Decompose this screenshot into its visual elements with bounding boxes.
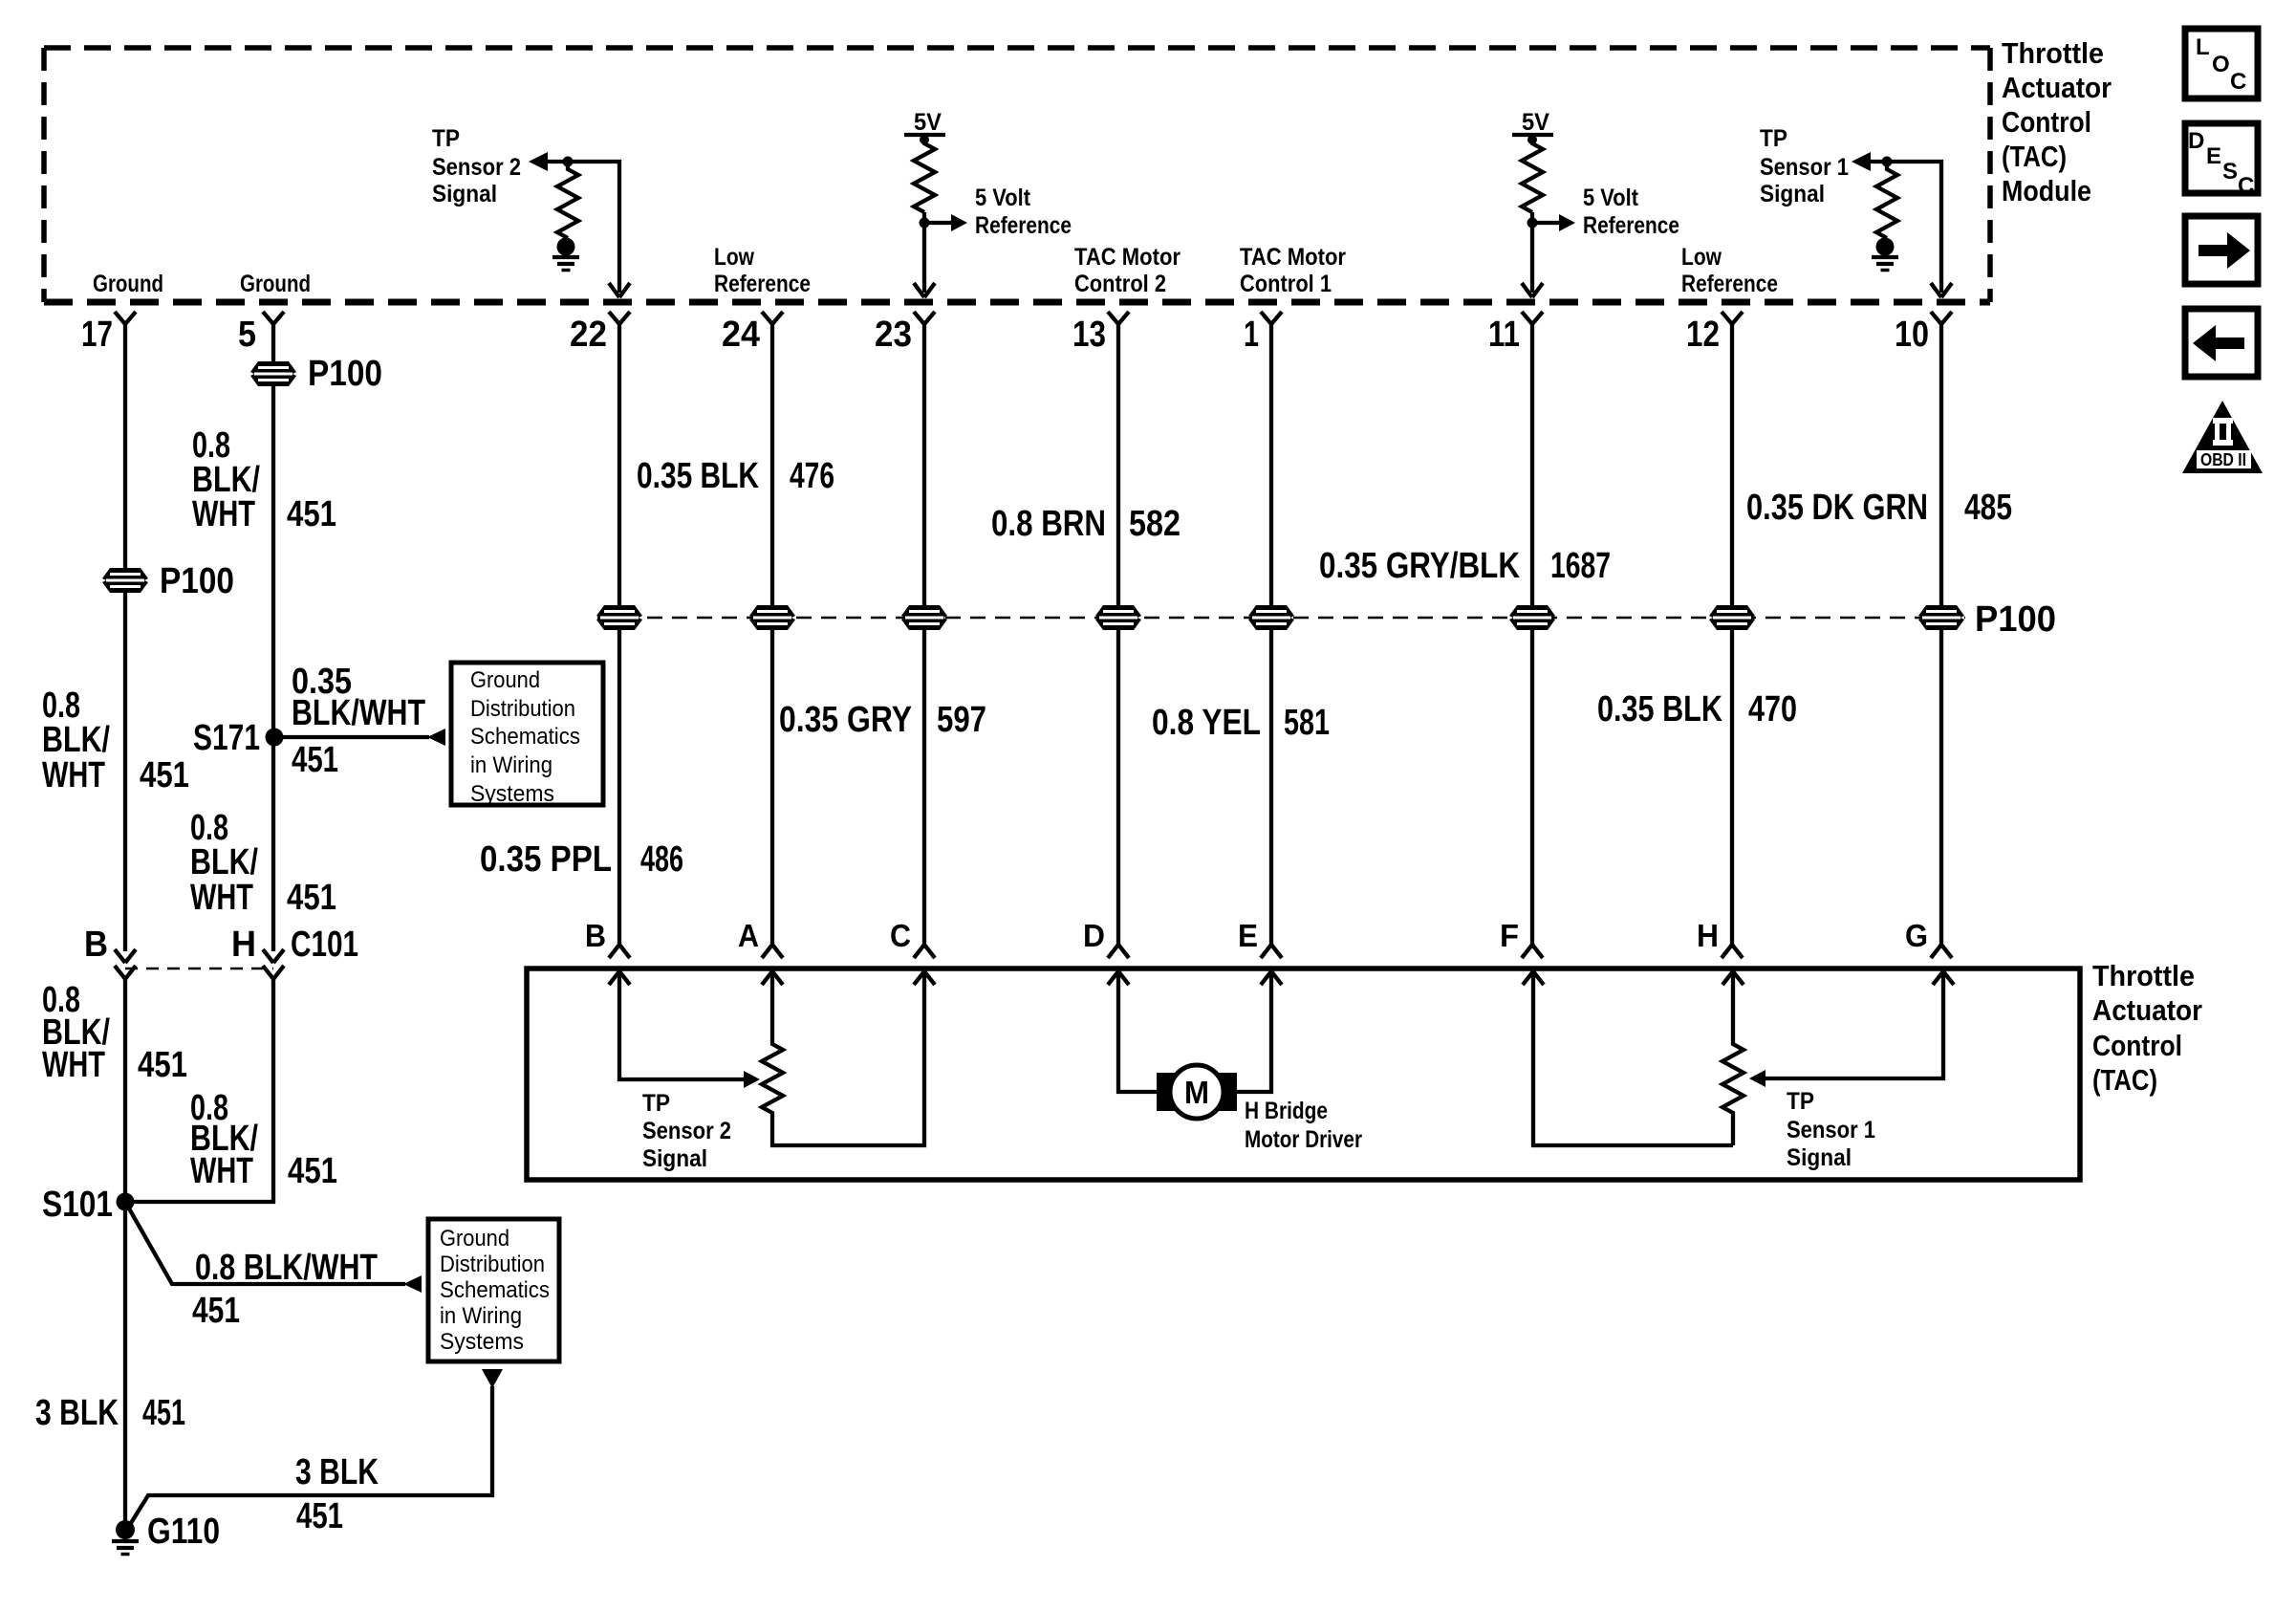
svg-text:WHT: WHT bbox=[190, 1151, 253, 1191]
svg-text:582: 582 bbox=[1129, 504, 1180, 544]
svg-text:Signal: Signal bbox=[642, 1145, 707, 1172]
svg-text:Control: Control bbox=[2092, 1029, 2182, 1062]
connector P100 at wire 23 bbox=[901, 605, 947, 630]
label: 5 Volt Reference (pin 11) bbox=[1583, 185, 1679, 239]
svg-text:WHT: WHT bbox=[42, 755, 105, 795]
svg-text:0.35 PPL: 0.35 PPL bbox=[480, 839, 612, 880]
resistor R-5V (pin 11) bbox=[1522, 140, 1543, 212]
svg-text:0.35 GRY: 0.35 GRY bbox=[779, 700, 912, 740]
svg-text:in Wiring: in Wiring bbox=[470, 752, 552, 778]
label: 3 BLK 451 (wire B lower) bbox=[35, 1393, 185, 1433]
svg-text:1: 1 bbox=[1244, 315, 1259, 355]
svg-text:Sensor 2: Sensor 2 bbox=[432, 154, 521, 181]
svg-text:M: M bbox=[1184, 1075, 1209, 1110]
svg-text:BLK/: BLK/ bbox=[42, 720, 110, 760]
wire 10 vertical bbox=[1939, 323, 1943, 945]
label: 0.35 BLK 470 (wire 12) bbox=[1597, 689, 1797, 729]
svg-text:E: E bbox=[2206, 143, 2221, 169]
wire 22 vertical bbox=[617, 323, 621, 945]
connector P100 at wire 12 bbox=[1709, 605, 1755, 630]
chevron arrow pin 23 internal bbox=[914, 283, 935, 297]
svg-text:O: O bbox=[2212, 52, 2230, 77]
label: Throttle Actuator Control (TAC) bbox=[2092, 959, 2202, 1097]
svg-text:5V: 5V bbox=[914, 109, 942, 136]
svg-text:581: 581 bbox=[1284, 703, 1330, 743]
svg-text:Throttle: Throttle bbox=[2092, 959, 2195, 992]
svg-text:Systems: Systems bbox=[470, 781, 554, 807]
label: TP Sensor 2 Signal (module internal) bbox=[432, 125, 521, 207]
svg-text:Control 2: Control 2 bbox=[1074, 271, 1166, 297]
svg-text:OBD II: OBD II bbox=[2200, 450, 2246, 469]
svg-text:Reference: Reference bbox=[1583, 212, 1679, 239]
label: TAC Motor Control 2 (pin 13) bbox=[1074, 244, 1180, 297]
svg-text:Reference: Reference bbox=[1681, 271, 1778, 297]
svg-text:Throttle: Throttle bbox=[2002, 36, 2104, 70]
svg-text:5 Volt: 5 Volt bbox=[975, 185, 1031, 211]
svg-text:H: H bbox=[1697, 918, 1719, 953]
svg-text:0.8 BLK/WHT: 0.8 BLK/WHT bbox=[195, 1248, 378, 1288]
svg-text:Sensor 1: Sensor 1 bbox=[1787, 1117, 1875, 1143]
ground (TP2 internal) bbox=[552, 238, 579, 271]
svg-text:451: 451 bbox=[140, 755, 189, 795]
arrow to 5 Volt Reference (pin 11) bbox=[1532, 221, 1559, 225]
label: 0.8 BLK/WHT 451 (wire 5 upper) bbox=[192, 425, 336, 534]
svg-text:Ground: Ground bbox=[440, 1226, 509, 1252]
label: 0.8 BLK/WHT 451 (wire B) bbox=[42, 980, 187, 1085]
svg-text:BLK/: BLK/ bbox=[190, 842, 258, 882]
wire: TP1 signal node to pin 10 bbox=[1868, 162, 1941, 293]
svg-text:L: L bbox=[2196, 34, 2210, 60]
label: 0.8 BLK/WHT 451 (wire H) bbox=[190, 1088, 337, 1191]
svg-text:C: C bbox=[890, 918, 911, 953]
svg-text:F: F bbox=[1500, 918, 1519, 953]
svg-text:0.35 BLK: 0.35 BLK bbox=[637, 456, 759, 496]
label: TAC Motor Control 1 (pin 1) bbox=[1240, 244, 1346, 297]
wire: TP2 signal node to pin 22 bbox=[545, 162, 619, 293]
svg-text:in Wiring: in Wiring bbox=[440, 1303, 522, 1329]
label: 0.8 BLK/WHT 451 (wire 5 lower) bbox=[190, 808, 336, 918]
node dot TP2 bbox=[563, 157, 574, 167]
svg-text:Ground: Ground bbox=[93, 271, 163, 297]
svg-text:11: 11 bbox=[1488, 315, 1520, 355]
svg-text:C: C bbox=[2230, 69, 2246, 95]
svg-text:C: C bbox=[2238, 173, 2254, 199]
svg-text:S101: S101 bbox=[42, 1185, 113, 1225]
wire box2 to G110 run bbox=[131, 1386, 492, 1523]
svg-text:Signal: Signal bbox=[432, 181, 497, 207]
svg-text:10: 10 bbox=[1895, 315, 1929, 355]
svg-text:24: 24 bbox=[722, 315, 760, 355]
svg-text:Reference: Reference bbox=[714, 271, 811, 297]
svg-text:Schematics: Schematics bbox=[440, 1277, 550, 1303]
label: TP Sensor 1 Signal (module internal) bbox=[1760, 125, 1849, 207]
wire 5V to pin 11 bbox=[1530, 212, 1534, 293]
label: TP Sensor 1 Signal (TAC internal) bbox=[1787, 1088, 1875, 1171]
svg-text:Systems: Systems bbox=[440, 1329, 524, 1355]
P100 inline connector dashed line bbox=[597, 617, 1965, 620]
icon: DESC box bbox=[2185, 123, 2258, 199]
svg-text:Schematics: Schematics bbox=[470, 724, 580, 750]
label: 0.35 BLK 476 (wire 24) bbox=[637, 456, 834, 496]
motor M (H bridge) bbox=[1157, 1065, 1237, 1119]
splice S101 node bbox=[117, 1193, 135, 1211]
svg-text:Reference: Reference bbox=[975, 212, 1072, 239]
svg-text:Ground: Ground bbox=[240, 271, 311, 297]
arrow to 5 Volt Reference (pin 23) bbox=[924, 221, 951, 225]
svg-text:451: 451 bbox=[287, 494, 336, 534]
svg-text:P100: P100 bbox=[160, 561, 234, 601]
label: Low Reference (pin 24) bbox=[714, 244, 811, 297]
svg-text:E: E bbox=[1238, 918, 1258, 953]
svg-text:Distribution: Distribution bbox=[470, 696, 575, 722]
connector C101: chevrons and dashed line bbox=[115, 949, 284, 979]
label: 0.8 YEL 581 (wire 1) bbox=[1152, 703, 1330, 743]
label: Low Reference (pin 12) bbox=[1681, 244, 1778, 297]
svg-text:Sensor 2: Sensor 2 bbox=[642, 1118, 731, 1144]
svg-text:H: H bbox=[231, 925, 256, 965]
wire 23 vertical bbox=[922, 323, 926, 945]
label: 0.8 BLK/WHT 451 (wire 17) bbox=[42, 686, 189, 795]
svg-text:1687: 1687 bbox=[1550, 546, 1611, 586]
svg-text:B: B bbox=[585, 918, 606, 953]
connector P100 at wire 1 bbox=[1248, 605, 1294, 630]
label: 0.35 GRY 597 (wire 23) bbox=[779, 700, 986, 740]
svg-text:A: A bbox=[738, 918, 759, 953]
svg-text:TAC Motor: TAC Motor bbox=[1074, 244, 1180, 271]
wire S171 to ground distribution box bbox=[274, 735, 429, 739]
svg-text:BLK/WHT: BLK/WHT bbox=[292, 693, 425, 733]
svg-text:451: 451 bbox=[296, 1496, 343, 1536]
svg-text:D: D bbox=[1083, 918, 1105, 953]
svg-text:3 BLK: 3 BLK bbox=[295, 1452, 379, 1492]
svg-text:486: 486 bbox=[640, 839, 683, 880]
connector P100 at wire 22 bbox=[596, 605, 642, 630]
svg-text:TP: TP bbox=[1787, 1088, 1814, 1115]
svg-text:C101: C101 bbox=[291, 925, 358, 965]
connector P100 at wire 17 bbox=[102, 568, 148, 593]
svg-text:TP: TP bbox=[642, 1090, 670, 1117]
svg-text:WHT: WHT bbox=[190, 878, 253, 918]
label: 5 Volt Reference (pin 23) bbox=[975, 185, 1072, 239]
icon: forward arrow box bbox=[2185, 216, 2258, 284]
internal chevron arrows at TAC box top bbox=[609, 971, 630, 985]
wire 12 vertical bbox=[1730, 323, 1734, 945]
svg-text:Control: Control bbox=[2002, 105, 2091, 139]
svg-text:Control 1: Control 1 bbox=[1240, 271, 1332, 297]
svg-text:(TAC): (TAC) bbox=[2092, 1063, 2157, 1097]
svg-text:Low: Low bbox=[1681, 244, 1722, 271]
svg-text:5V: 5V bbox=[1522, 109, 1549, 136]
svg-text:17: 17 bbox=[81, 315, 113, 355]
chevron arrow pin 11 internal bbox=[1522, 283, 1543, 297]
5V supply bar (pin 23) bbox=[904, 133, 945, 137]
wire S101 to ground distribution box (lower) bbox=[125, 1202, 405, 1284]
svg-text:470: 470 bbox=[1748, 689, 1797, 729]
svg-text:Actuator: Actuator bbox=[2002, 71, 2112, 104]
wire F internal to TP1 bottom bbox=[1533, 971, 1733, 1145]
svg-text:5 Volt: 5 Volt bbox=[1583, 185, 1639, 211]
svg-text:Sensor 1: Sensor 1 bbox=[1760, 154, 1849, 181]
svg-text:0.35 BLK: 0.35 BLK bbox=[1597, 689, 1722, 729]
wire D internal to motor bbox=[1118, 971, 1157, 1092]
svg-text:597: 597 bbox=[937, 700, 986, 740]
wire 1 vertical bbox=[1269, 323, 1273, 945]
svg-text:Signal: Signal bbox=[1787, 1144, 1852, 1171]
svg-text:TP: TP bbox=[432, 125, 460, 152]
svg-text:G110: G110 bbox=[147, 1512, 220, 1552]
svg-text:Low: Low bbox=[714, 244, 754, 271]
label: 0.35 PPL 486 (wire 22) bbox=[480, 839, 683, 880]
connector P100 at wire 5 bbox=[250, 361, 296, 386]
wire 17 vertical bbox=[123, 323, 127, 951]
splice S101... S171 node bbox=[266, 729, 284, 747]
arrow into box2 bbox=[403, 1275, 422, 1293]
connector P100 at wire 10 bbox=[1918, 605, 1964, 630]
svg-text:Ground: Ground bbox=[470, 667, 540, 693]
label: 0.8 BRN 582 (wire 13) bbox=[991, 504, 1180, 544]
svg-text:WHT: WHT bbox=[192, 494, 255, 534]
svg-text:22: 22 bbox=[570, 315, 607, 355]
TAC box pin forks (female connectors) bbox=[609, 945, 630, 958]
box: Ground Distribution Schematics in Wiring Systems (upper) bbox=[451, 663, 603, 807]
resistor R-TP1 (pull to ground) bbox=[1876, 162, 1897, 238]
svg-text:D: D bbox=[2188, 128, 2204, 154]
connector P100 at wire 13 bbox=[1095, 605, 1141, 630]
svg-text:451: 451 bbox=[287, 878, 336, 918]
label: 0.8 BLK/WHT 451 (S101 branch) bbox=[192, 1248, 378, 1331]
wire 5V to pin 23 bbox=[922, 212, 926, 293]
svg-text:451: 451 bbox=[192, 1291, 240, 1331]
node dot under 5V bar bbox=[920, 135, 929, 144]
connector P100 at wire 11 bbox=[1509, 605, 1555, 630]
arrow to TP Sensor 2 Signal bbox=[529, 152, 548, 171]
arrow to TP Sensor 1 Signal bbox=[1852, 152, 1871, 171]
svg-text:0.8 YEL: 0.8 YEL bbox=[1152, 703, 1261, 743]
node dot TP1 bbox=[1882, 157, 1893, 167]
wire 13 vertical bbox=[1116, 323, 1120, 945]
svg-text:WHT: WHT bbox=[42, 1045, 105, 1085]
label: 0.35 GRY/BLK 1687 (wire 11) bbox=[1319, 546, 1611, 586]
svg-text:0.8 BRN: 0.8 BRN bbox=[991, 504, 1106, 544]
TAC box (Throttle Actuator Control) bbox=[527, 969, 2080, 1180]
svg-text:P100: P100 bbox=[308, 354, 382, 394]
svg-text:(TAC): (TAC) bbox=[2002, 140, 2067, 173]
ground (TP1 internal) bbox=[1872, 238, 1898, 271]
svg-text:451: 451 bbox=[288, 1151, 337, 1191]
wire G internal to TP1 wiper bbox=[1765, 971, 1943, 1078]
wire H below C101 to S101 bbox=[134, 979, 273, 1202]
node dot 5V ref (pin 23) bbox=[920, 218, 930, 229]
svg-text:23: 23 bbox=[875, 315, 912, 355]
label: TP Sensor 2 Signal (TAC internal) bbox=[642, 1090, 731, 1172]
ground G110 bbox=[112, 1520, 139, 1555]
svg-text:485: 485 bbox=[1964, 488, 2012, 528]
wire B below C101 bbox=[123, 979, 127, 1521]
svg-text:451: 451 bbox=[138, 1045, 187, 1085]
wire 5 vertical bbox=[271, 323, 275, 951]
node dot under 5V bar (pin 11) bbox=[1527, 135, 1537, 144]
potentiometer TP Sensor 2 (wire A to C) bbox=[762, 971, 924, 1145]
arrow into TP1 wiper bbox=[1749, 1070, 1765, 1087]
svg-text:13: 13 bbox=[1072, 315, 1106, 355]
chevron arrow pin 22 internal bbox=[609, 283, 630, 297]
label: H Bridge Motor Driver bbox=[1245, 1098, 1362, 1153]
arrow into TP2 wiper bbox=[744, 1071, 760, 1088]
svg-text:TP: TP bbox=[1760, 125, 1787, 152]
arrow below box2 bbox=[482, 1369, 503, 1388]
wire 24 vertical bbox=[770, 323, 774, 945]
svg-text:Motor Driver: Motor Driver bbox=[1245, 1126, 1362, 1153]
icon: OBD II triangle bbox=[2182, 401, 2263, 473]
connector P100 at wire 24 bbox=[749, 605, 795, 630]
label: 0.35 DK GRN 485 (wire 10) bbox=[1746, 488, 2012, 528]
TAC module dashed box U1 bbox=[44, 45, 1990, 51]
wire 11 vertical bbox=[1530, 323, 1534, 945]
box: Ground Distribution Schematics in Wiring Systems (lower) bbox=[428, 1219, 559, 1361]
svg-text:Actuator: Actuator bbox=[2092, 993, 2202, 1027]
svg-text:P100: P100 bbox=[1975, 599, 2056, 640]
arrow into box1 bbox=[427, 729, 445, 746]
resistor R-5V (pin 23) bbox=[914, 140, 935, 212]
svg-text:TAC Motor: TAC Motor bbox=[1240, 244, 1346, 271]
icon: back arrow box bbox=[2185, 309, 2258, 377]
node dot 5V ref (pin 11) bbox=[1527, 218, 1538, 229]
svg-text:H Bridge: H Bridge bbox=[1245, 1098, 1328, 1124]
icon: LOC box bbox=[2185, 29, 2258, 98]
svg-text:5: 5 bbox=[238, 315, 256, 355]
label: 3 BLK 451 (G110 branch) bbox=[295, 1452, 379, 1536]
svg-text:Module: Module bbox=[2002, 174, 2091, 207]
svg-text:B: B bbox=[84, 925, 108, 965]
svg-text:0.35 GRY/BLK: 0.35 GRY/BLK bbox=[1319, 546, 1520, 586]
wire E internal to motor bbox=[1237, 971, 1271, 1092]
svg-text:0.35 DK GRN: 0.35 DK GRN bbox=[1746, 488, 1928, 528]
label: 0.35 BLK/WHT 451 (S171 branch) bbox=[292, 662, 425, 780]
label: Throttle Actuator Control (TAC) Module bbox=[2002, 36, 2112, 207]
svg-text:Distribution: Distribution bbox=[440, 1252, 545, 1277]
svg-text:S: S bbox=[2222, 159, 2238, 185]
svg-text:S171: S171 bbox=[193, 718, 260, 758]
chevron arrow pin 10 internal bbox=[1931, 283, 1952, 297]
5V supply bar (pin 11) bbox=[1512, 133, 1553, 137]
pin forks at module (female connectors) bbox=[115, 312, 136, 324]
svg-text:476: 476 bbox=[790, 456, 834, 496]
potentiometer TP Sensor 1 (wire H) bbox=[1722, 971, 1744, 1145]
svg-text:3 BLK: 3 BLK bbox=[35, 1393, 119, 1433]
svg-text:G: G bbox=[1905, 918, 1928, 953]
svg-text:451: 451 bbox=[142, 1393, 185, 1433]
wire B internal to TP2 wiper bbox=[619, 971, 744, 1079]
svg-text:451: 451 bbox=[292, 740, 338, 780]
svg-text:12: 12 bbox=[1686, 315, 1720, 355]
resistor R-TP2 (pull to ground) bbox=[557, 162, 578, 238]
svg-text:Signal: Signal bbox=[1760, 181, 1825, 207]
